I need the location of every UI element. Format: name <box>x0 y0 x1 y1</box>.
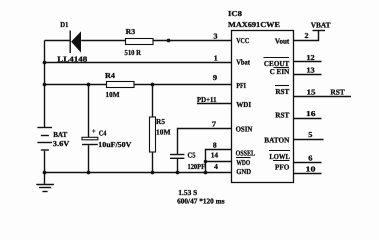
svg-text:2: 2 <box>305 31 309 40</box>
svg-text:GND: GND <box>236 167 251 176</box>
svg-text:D1: D1 <box>60 20 68 29</box>
pin label C EIN with overline <box>270 67 290 76</box>
svg-text:7: 7 <box>212 119 216 128</box>
resistor R5 <box>150 85 156 173</box>
svg-text:3: 3 <box>213 31 217 40</box>
wire VCC top net <box>45 40 232 42</box>
svg-text:WDO: WDO <box>236 158 250 167</box>
svg-text:MAX691CWE: MAX691CWE <box>228 20 280 29</box>
svg-text:RST: RST <box>330 87 344 96</box>
resistor R3 <box>126 39 154 45</box>
svg-text:R5: R5 <box>156 117 165 126</box>
wire WDI net <box>197 103 232 105</box>
pin label PFO with overline <box>273 161 290 172</box>
wire PFO pin10 stub <box>294 173 322 175</box>
svg-text:13: 13 <box>306 66 315 75</box>
svg-text:12: 12 <box>306 53 315 62</box>
svg-text:C4: C4 <box>99 128 107 137</box>
svg-text:WDI: WDI <box>236 100 251 109</box>
svg-text:PD+11: PD+11 <box>197 95 217 104</box>
capacitor C4 <box>82 85 98 173</box>
node on VCC wire <box>167 39 171 43</box>
svg-text:14: 14 <box>211 151 219 160</box>
svg-text:OSIN: OSIN <box>236 124 253 133</box>
diode D1 <box>70 31 81 54</box>
svg-text:PFI: PFI <box>236 81 246 90</box>
svg-text:BAT: BAT <box>53 130 67 139</box>
wire left rail <box>44 41 46 128</box>
svg-text:C EIN: C EIN <box>270 67 290 76</box>
svg-text:120PF: 120PF <box>188 162 206 171</box>
svg-text:10M: 10M <box>156 128 171 137</box>
svg-text:RST: RST <box>275 111 289 120</box>
svg-text:16: 16 <box>306 109 316 118</box>
svg-text:VCC: VCC <box>236 36 249 45</box>
ground <box>36 173 54 192</box>
svg-text:15: 15 <box>307 87 316 96</box>
svg-text:Vout: Vout <box>275 36 290 45</box>
svg-text:OSSEL: OSSEL <box>236 149 255 158</box>
svg-text:10uF/50V: 10uF/50V <box>98 140 132 149</box>
svg-text:LOWL: LOWL <box>269 152 290 161</box>
pin label RST bar pin15 <box>275 86 289 96</box>
svg-text:10M: 10M <box>106 90 120 99</box>
battery BAT <box>37 128 52 173</box>
svg-text:R3: R3 <box>126 27 136 36</box>
svg-text:4: 4 <box>214 162 218 171</box>
svg-text:510 R: 510 R <box>125 48 142 57</box>
svg-text:R4: R4 <box>105 71 115 80</box>
svg-text:Vbat: Vbat <box>236 57 250 66</box>
svg-text:5: 5 <box>308 130 312 139</box>
wire BATON pin5 stub <box>294 139 324 141</box>
wire LOWL pin6 stub <box>294 162 322 164</box>
svg-text:VBAT: VBAT <box>311 20 331 29</box>
resistor R4 <box>107 82 135 88</box>
wire Vout pin2 to VBAT flag <box>294 31 326 41</box>
capacitor C5 <box>170 155 184 173</box>
wire WDO net <box>204 160 232 164</box>
svg-text:600/47 *120 ms: 600/47 *120 ms <box>177 196 225 205</box>
pin label WDO with overline <box>236 158 251 167</box>
pin label LOWL with overline <box>269 151 290 161</box>
wire PFI net <box>43 83 232 87</box>
op-amp U1 IC body MAX691 <box>232 31 294 183</box>
pin label CEOUT with overline <box>264 58 290 69</box>
svg-text:8: 8 <box>213 140 217 149</box>
wire VBAT pin1 net <box>43 61 232 65</box>
svg-text:6: 6 <box>308 154 312 163</box>
wire OSC IN net <box>178 129 232 154</box>
svg-text:IC8: IC8 <box>228 9 242 18</box>
wire OSC SEL net <box>206 150 232 173</box>
wire CEIN pin13 stub <box>294 74 322 76</box>
wire CEOUT pin12 stub <box>294 61 322 63</box>
svg-text:+: + <box>92 127 96 136</box>
wire RST pin15 net <box>294 96 352 98</box>
svg-text:PFO: PFO <box>275 162 290 171</box>
svg-text:1: 1 <box>214 54 218 63</box>
svg-text:BATON: BATON <box>264 135 290 144</box>
svg-text:C5: C5 <box>188 151 196 160</box>
svg-text:9: 9 <box>213 73 217 82</box>
svg-text:3.6V: 3.6V <box>53 139 70 148</box>
wire RST pin16 stub <box>294 118 322 120</box>
wire ground rail <box>43 171 232 175</box>
svg-text:RST: RST <box>275 87 289 96</box>
svg-text:10: 10 <box>306 164 316 173</box>
